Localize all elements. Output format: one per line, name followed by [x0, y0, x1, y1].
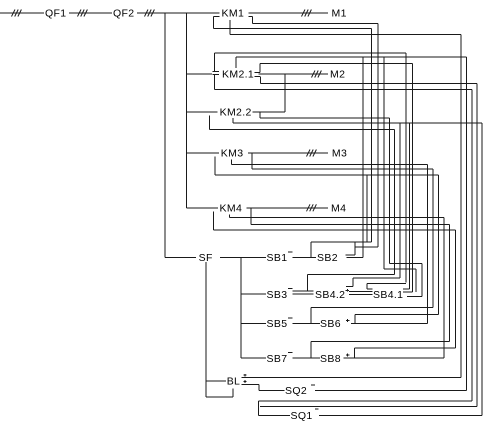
svg-text:SB5: SB5 [267, 318, 288, 330]
svg-text:SB6: SB6 [320, 318, 341, 330]
svg-text:SB3: SB3 [267, 289, 288, 301]
svg-text:SB4.1: SB4.1 [373, 289, 403, 301]
svg-text:M1: M1 [332, 8, 347, 20]
svg-text:QF1: QF1 [45, 8, 66, 20]
svg-text:KM2.1: KM2.1 [222, 69, 254, 81]
svg-text:M2: M2 [330, 69, 345, 81]
svg-text:BL: BL [227, 376, 241, 388]
svg-text:SB4.2: SB4.2 [315, 289, 345, 301]
svg-text:M3: M3 [332, 148, 347, 160]
svg-text:KM1: KM1 [222, 8, 245, 20]
svg-text:SF: SF [199, 252, 213, 264]
svg-text:SQ1: SQ1 [291, 410, 313, 422]
svg-text:KM4: KM4 [220, 202, 243, 214]
svg-text:M4: M4 [331, 202, 346, 214]
svg-text:SB8: SB8 [320, 353, 341, 365]
svg-text:SB7: SB7 [267, 353, 288, 365]
svg-text:KM3: KM3 [221, 148, 244, 160]
svg-text:SB2: SB2 [317, 252, 338, 264]
svg-text:QF2: QF2 [113, 8, 134, 20]
svg-text:SQ2: SQ2 [285, 385, 307, 397]
svg-text:SB1: SB1 [267, 252, 288, 264]
svg-text:KM2.2: KM2.2 [220, 107, 252, 119]
